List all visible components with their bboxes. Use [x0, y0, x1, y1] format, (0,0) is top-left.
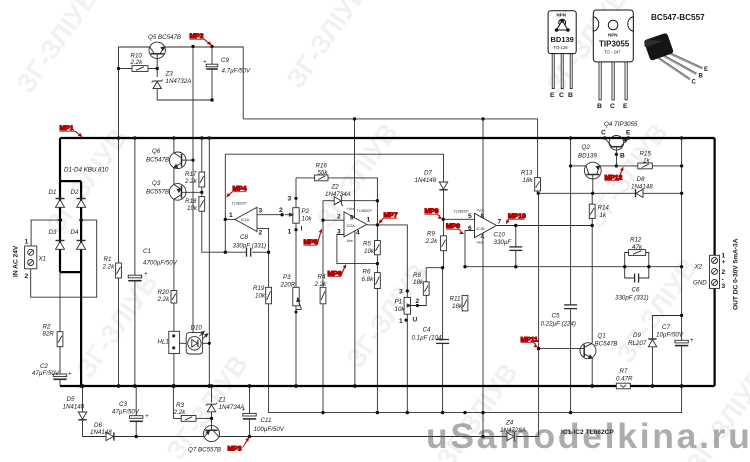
svg-text:6: 6 — [468, 225, 472, 232]
wire C6 left loop — [625, 267, 635, 278]
svg-text:Z2: Z2 — [331, 184, 340, 191]
node MP8 D7 R9 pin5 — [442, 218, 445, 221]
svg-text:1N4734A: 1N4734A — [219, 404, 245, 411]
wire R4 bottom to sense line — [322, 304, 324, 413]
resistor R1 — [116, 263, 122, 278]
node rail R1 column — [117, 136, 121, 140]
node feedback net output column — [680, 265, 683, 268]
capacitor C5 ceramic — [564, 305, 577, 309]
node bus Z1 — [210, 384, 214, 388]
wire R1 column rail to bus — [118, 138, 120, 263]
svg-text:R7: R7 — [620, 368, 628, 375]
svg-text:R13: R13 — [521, 170, 533, 177]
wire C5 column from rail — [570, 138, 572, 305]
wire Q2 collector lead — [571, 165, 586, 167]
node sense line R6 — [376, 411, 379, 414]
test point MP8 — [425, 208, 443, 219]
potentiometer P1 — [404, 297, 410, 314]
svg-text:B: B — [699, 74, 704, 80]
svg-text:B: B — [568, 92, 573, 99]
test point MP5 — [304, 229, 323, 246]
node R5 R6 pin3 junction — [376, 262, 379, 265]
svg-text:IC1B: IC1B — [477, 227, 486, 231]
svg-text:C: C — [610, 103, 615, 110]
svg-text:R8: R8 — [413, 272, 421, 279]
capacitor C4 ceramic — [436, 340, 449, 344]
resistor R11 — [462, 295, 468, 311]
svg-text:TO-126: TO-126 — [554, 45, 569, 50]
wire D9 anode to bus — [652, 347, 654, 386]
node R12 C6 right — [647, 265, 650, 268]
wire R4 column — [322, 220, 324, 287]
svg-text:B: B — [597, 103, 602, 110]
wire C6 right loop — [639, 267, 649, 278]
resistor R16 — [315, 175, 328, 181]
wire C3 bottom — [135, 422, 137, 437]
svg-text:2.2k: 2.2k — [184, 178, 198, 185]
diode D1 bridge — [56, 199, 65, 208]
test point MP7 — [379, 212, 398, 224]
svg-text:E: E — [550, 92, 555, 99]
svg-text:2.2k: 2.2k — [130, 59, 144, 66]
diode D2 bridge — [77, 199, 86, 208]
diode D5 — [78, 412, 86, 420]
svg-text:U: U — [413, 317, 418, 324]
wire R17 column from rail — [201, 138, 203, 172]
node rail C5 Q2 column — [569, 136, 573, 140]
LED holder HL1 — [169, 331, 186, 353]
diode D3 bridge — [56, 241, 65, 250]
capacitor C8 ceramic — [247, 248, 251, 257]
svg-text:D9: D9 — [633, 332, 641, 339]
node aux rail IC1B pin4 — [481, 435, 484, 438]
node P3 wiper tie — [295, 311, 298, 314]
test point MP11 — [521, 337, 539, 348]
svg-text:1N4148: 1N4148 — [415, 177, 437, 184]
svg-text:TL082CP: TL082CP — [454, 210, 470, 214]
svg-text:BD139: BD139 — [578, 153, 597, 160]
svg-text:3: 3 — [399, 289, 403, 296]
wire Q2 emitter to Q4 base node — [600, 165, 638, 167]
wire bridge left column (thick) — [59, 138, 61, 272]
svg-text:8: 8 — [350, 215, 354, 222]
node bus R3 — [172, 384, 176, 388]
wire R10 right to Q5 base node — [148, 68, 157, 70]
svg-text:E: E — [704, 67, 708, 73]
svg-text:GND: GND — [693, 280, 707, 287]
test point MP4 — [226, 186, 246, 198]
svg-text:1N4148: 1N4148 — [90, 429, 112, 436]
capacitor C2 polarized — [53, 374, 66, 379]
wire main positive rail (thick) — [60, 137, 715, 139]
svg-text:D5: D5 — [67, 396, 75, 403]
node aux rail C3 — [135, 435, 138, 438]
wire Q5 base down to R10/Z3 node — [156, 54, 158, 77]
svg-text:1N4148: 1N4148 — [631, 184, 653, 191]
node Q4 base marker — [615, 153, 618, 156]
svg-text:330pF (331): 330pF (331) — [615, 295, 649, 302]
svg-text:0.22µF (224): 0.22µF (224) — [541, 321, 576, 328]
wire Q6 collector riser — [173, 138, 175, 153]
node MP7 output node — [376, 223, 379, 226]
svg-text:R6: R6 — [363, 269, 371, 276]
wire HL1 bottom pin to bus — [173, 354, 175, 386]
svg-text:18k: 18k — [452, 303, 463, 310]
svg-text:R2: R2 — [43, 324, 51, 331]
resistor R10 — [132, 66, 148, 72]
resistor R6 — [375, 273, 381, 289]
wire P3 bottom to bus — [295, 306, 297, 386]
resistor R19 — [266, 287, 272, 304]
wire IC1B pin7 output — [496, 225, 592, 227]
potentiometer P2 — [285, 208, 299, 224]
wire IC1A pin3 to P2 wiper — [257, 214, 282, 216]
node rail Q4 collector — [603, 136, 607, 140]
svg-text:3: 3 — [722, 283, 726, 290]
node aux rail C11 MP3 — [248, 435, 251, 438]
svg-text:+Vcc: +Vcc — [347, 207, 355, 211]
node Q2 collector tap — [569, 164, 572, 167]
node IC1B pin7 C10 — [514, 224, 517, 227]
diode D6 — [106, 432, 114, 440]
svg-text:Q5 BC547B: Q5 BC547B — [148, 34, 181, 41]
svg-text:3: 3 — [259, 208, 263, 215]
transistor package photo BC547-BC557 — [644, 13, 708, 86]
svg-text:R16: R16 — [316, 163, 328, 170]
transistor package drawing TIP3055 — [593, 10, 633, 110]
node Q6 base MP2 column — [191, 159, 194, 162]
svg-text:Z3: Z3 — [165, 71, 174, 78]
svg-text:R9: R9 — [427, 231, 435, 238]
wire C1 bottom to bus — [134, 281, 136, 386]
wire IC1B pin8 supply riser — [482, 119, 484, 217]
node P1 pin3 marker — [406, 289, 409, 292]
svg-text:I: I — [301, 226, 303, 233]
op-amp IC2A — [344, 212, 367, 237]
node sense line C4 — [441, 411, 444, 414]
svg-text:BC547B: BC547B — [595, 341, 618, 348]
svg-text:7: 7 — [498, 219, 502, 226]
svg-text:BC547B: BC547B — [146, 157, 169, 164]
wire IC1A pin1 output stub — [225, 218, 235, 220]
svg-text:C7: C7 — [662, 324, 670, 331]
svg-text:P2: P2 — [302, 208, 310, 215]
node C10 bottom feedback net — [514, 265, 517, 268]
wire IC1A pin2 corner to C8 right — [257, 228, 269, 252]
svg-text:1: 1 — [229, 212, 233, 219]
node Z1 R3 Q7 base — [210, 417, 213, 420]
wire R13 bottom to Q2 base net — [538, 191, 593, 193]
svg-text:C3: C3 — [119, 401, 127, 408]
node bus HL1 — [172, 384, 176, 388]
wire IC1B pin6 corner to feedback net — [465, 231, 475, 267]
wire C10 bottom — [515, 250, 517, 266]
wire feedback net y=266.7 to output plus column — [465, 266, 682, 268]
wire R16 left lead — [296, 177, 315, 179]
svg-text:2.2k: 2.2k — [425, 238, 439, 245]
capacitor C11 polarized — [243, 413, 256, 419]
resistor R4 — [320, 287, 326, 304]
resistor R2 — [57, 332, 63, 347]
svg-text:+: + — [722, 259, 726, 266]
wire R14 bottom to Q1 collector — [591, 218, 593, 343]
wire X1 pin2 AC loop — [31, 220, 97, 297]
svg-text:10µF/50V: 10µF/50V — [656, 332, 684, 339]
svg-text:E: E — [623, 103, 628, 110]
svg-text:D4: D4 — [71, 229, 79, 236]
svg-text:RL207: RL207 — [628, 340, 647, 347]
svg-text:1k: 1k — [600, 212, 607, 219]
svg-text:R3: R3 — [176, 402, 184, 409]
capacitor C9 polarized — [206, 64, 218, 69]
svg-text:C1: C1 — [143, 248, 151, 255]
wire IC2A pin4 down to bus — [354, 232, 356, 387]
wire Z2 left riser down to pin2 and R4 — [322, 201, 324, 221]
resistor R14 — [589, 204, 595, 218]
wire rail-to-bus link at LED column — [208, 138, 210, 386]
node top wire at MP2 column — [191, 45, 194, 48]
zener Z1 — [206, 403, 217, 412]
node R15 right output column — [680, 164, 683, 167]
transistor package drawing BD139 — [548, 11, 576, 99]
wire C8 left plate lead — [225, 251, 246, 253]
svg-text:BC557B: BC557B — [146, 189, 169, 196]
svg-text:2.2k: 2.2k — [173, 409, 187, 416]
svg-text:R15: R15 — [640, 151, 652, 158]
wire C1 column — [134, 138, 136, 275]
svg-text:R11: R11 — [450, 296, 461, 303]
wire R17 to R18 junction with Q3 base — [201, 187, 203, 197]
capacitor C1 polarized — [128, 275, 141, 281]
svg-text:Q7 BC557B: Q7 BC557B — [188, 447, 221, 454]
svg-text:C9: C9 — [221, 57, 229, 64]
wire Z1 anode to Q7 base node — [211, 412, 213, 419]
svg-text:-Vee: -Vee — [476, 241, 483, 245]
wire Q4 base drop — [615, 147, 617, 166]
resistor R8 — [423, 282, 429, 296]
wire D8 anode lead — [643, 192, 681, 194]
svg-text:4.7µF/50V: 4.7µF/50V — [222, 68, 252, 75]
wire bridge minus bar (thick) — [60, 271, 81, 273]
node bus R1 — [117, 384, 121, 388]
wire Q3 collector down to R20 — [173, 199, 175, 290]
node bus IC2A pin4 — [353, 384, 357, 388]
wire Z1 column from bus — [211, 386, 213, 403]
svg-text:1N4148: 1N4148 — [63, 404, 85, 411]
terminal X2 — [710, 255, 720, 288]
wire D7 V+ feed horizontal y=154.2 — [225, 154, 443, 181]
wire IC2A pin8 supply riser — [354, 119, 356, 218]
transistor Q5 — [149, 42, 165, 58]
node R10 left tap — [117, 67, 120, 70]
wire top Q5 collector from raw+ riser — [119, 47, 151, 138]
wire C10 column — [515, 226, 517, 247]
node rail Q6 collector — [172, 136, 176, 140]
svg-text:IN AC 24V: IN AC 24V — [13, 245, 20, 277]
svg-text:Q4 TIP3055: Q4 TIP3055 — [604, 121, 638, 128]
wire C7 branch to D9 — [653, 316, 682, 340]
diode D8 — [636, 189, 644, 197]
svg-text:4: 4 — [481, 234, 485, 241]
wire MP4 vertical IC1A output node — [224, 154, 226, 252]
node D8 right output column — [680, 192, 683, 195]
svg-text:47k: 47k — [632, 244, 643, 251]
test point MP3 — [228, 437, 250, 452]
diode D4 bridge — [77, 241, 86, 250]
svg-text:C10: C10 — [494, 232, 506, 239]
wire R10 left tap — [119, 68, 133, 70]
wire R9 column — [443, 219, 445, 236]
svg-text:R5: R5 — [363, 241, 371, 248]
wire R20 bottom to HL1 top pin — [173, 303, 175, 331]
resistor R18 — [199, 197, 205, 212]
svg-text:100µF/50V: 100µF/50V — [254, 426, 285, 433]
node C8 right IC1A pin2 R19 — [267, 251, 270, 254]
resistor R3 — [181, 416, 196, 422]
svg-text:MP3: MP3 — [228, 446, 242, 453]
zener Z2 — [334, 195, 343, 206]
wire C5 bottom to sense line — [570, 309, 572, 413]
wire D8 cathode lead — [593, 192, 636, 194]
node bus Q1 emitter — [590, 384, 594, 388]
svg-text:R18: R18 — [185, 198, 197, 205]
transistor Q3 — [169, 184, 186, 201]
svg-text:R20: R20 — [158, 289, 170, 296]
node Q3 base R17 R18 — [200, 191, 203, 194]
wire P2 bottom to P3 top — [295, 223, 297, 287]
resistor R7 with V marking — [616, 383, 630, 389]
transistor Q2 — [584, 162, 601, 179]
svg-text:220R: 220R — [280, 282, 296, 289]
wire C8 right plate lead — [252, 251, 268, 253]
svg-text:47µF/50V: 47µF/50V — [112, 409, 140, 416]
wire R2 chain from bridge minus bar — [59, 272, 61, 332]
svg-text:D3: D3 — [49, 229, 57, 236]
node sense line P1 — [406, 411, 409, 414]
node V+ wire IC1B pin8 — [481, 117, 484, 120]
wire X1 pin1 AC loop — [31, 220, 60, 246]
transistor Q1 — [580, 343, 596, 359]
svg-text:3: 3 — [288, 196, 292, 203]
wire Z2 cathode to node — [342, 200, 378, 202]
svg-text:C: C — [692, 80, 697, 86]
wire output plus column — [681, 138, 683, 340]
svg-text:2.2k: 2.2k — [157, 296, 171, 303]
test point MP10 — [506, 213, 526, 224]
svg-text:P3: P3 — [283, 274, 291, 281]
capacitor C6 ceramic — [635, 274, 639, 283]
wire negative aux rail after Z4 corner up MP11 column — [516, 436, 538, 438]
diode D7 — [439, 182, 447, 190]
resistor R20 — [171, 291, 177, 304]
wire IC2A pin3 lead loop — [337, 235, 378, 264]
wire IC2A pin2 lead — [323, 219, 344, 221]
node P1 wiper pin2 marker — [416, 304, 419, 307]
svg-text:R4: R4 — [318, 274, 326, 281]
svg-text:TO - 247: TO - 247 — [604, 50, 621, 55]
node IC2A pin2 Z2 R4 — [321, 219, 324, 222]
svg-text:C8: C8 — [240, 234, 248, 241]
svg-text:+: + — [68, 371, 72, 378]
wire Q6 base stub — [182, 159, 194, 161]
wire D5 anode corner — [82, 420, 84, 436]
svg-text:+: + — [145, 413, 149, 420]
svg-text:IC1A: IC1A — [241, 218, 250, 222]
transistor Q4 — [606, 136, 628, 151]
wire R5 to R6 junction — [376, 255, 378, 273]
svg-text:C6: C6 — [632, 287, 640, 294]
svg-text:C4: C4 — [423, 327, 431, 334]
test point MP9 — [446, 223, 464, 234]
node Q5 base R10 Z3 — [156, 67, 159, 70]
svg-text:10k: 10k — [255, 293, 266, 300]
node P2 pin1 marker — [294, 228, 297, 231]
svg-text:Q2: Q2 — [582, 144, 591, 151]
node rail LED link column — [208, 136, 212, 140]
wire main negative bus (thick) — [60, 385, 715, 387]
node Q2 base D8 R14 — [591, 192, 594, 195]
wire C2 bottom to bus start — [59, 380, 61, 387]
svg-text:4700µF/50V: 4700µF/50V — [143, 260, 178, 267]
svg-text:2: 2 — [722, 269, 726, 276]
wire C11 column from bus — [249, 386, 251, 413]
node rail output column — [680, 136, 684, 140]
resistor R15 — [638, 163, 652, 169]
resistor R13 — [535, 178, 541, 191]
svg-text:2: 2 — [279, 207, 283, 214]
svg-text:2: 2 — [25, 273, 29, 280]
capacitor C7 polarized — [675, 340, 688, 345]
svg-text:D10: D10 — [191, 324, 203, 331]
wire bridge right column (thick) — [80, 181, 82, 272]
svg-text:-Vee: -Vee — [346, 239, 353, 243]
wire R12 C6 right stub — [646, 253, 649, 267]
wire R12 C6 left stub — [625, 253, 629, 267]
svg-text:TL082CP: TL082CP — [357, 209, 373, 213]
svg-text:2.2k: 2.2k — [102, 264, 116, 271]
svg-text:BC547-BC557: BC547-BC557 — [651, 13, 705, 22]
node pin7 R14 Q1 collector — [591, 224, 594, 227]
svg-text:1: 1 — [399, 318, 403, 325]
node V+ wire IC2A pin8 — [353, 117, 356, 120]
svg-text:2.2k: 2.2k — [314, 281, 328, 288]
test point MP1 — [60, 125, 83, 137]
svg-text:0.47R: 0.47R — [616, 376, 633, 383]
wire R1 bottom to bus — [118, 278, 120, 386]
node bus LED link — [207, 384, 211, 388]
node sense line R11 — [463, 411, 466, 414]
potentiometer P3 — [293, 287, 302, 309]
wire R6 bottom to sense line — [376, 289, 378, 413]
test point MP12 — [605, 167, 624, 182]
node bus D5 — [81, 384, 85, 388]
wire bridge minus down to bus (thick) — [80, 272, 82, 386]
node pin6 feedback corner — [463, 265, 466, 268]
svg-text:0.1µF (104): 0.1µF (104) — [412, 335, 444, 342]
svg-text:D1-D4 KBU 810: D1-D4 KBU 810 — [64, 167, 109, 174]
wire D7 cathode to MP8 node — [443, 190, 445, 220]
wire rail right corner down to X2 pin1 (thick) — [713, 138, 715, 259]
svg-text:10k: 10k — [302, 216, 313, 223]
svg-text:X2: X2 — [694, 264, 703, 271]
wire LED D10 right lead — [203, 342, 210, 344]
wire R2 to C2 — [59, 347, 61, 374]
wire Q1 base lead — [539, 348, 580, 350]
node C7 D9 branch — [680, 314, 683, 317]
svg-text:2: 2 — [337, 214, 341, 221]
svg-text:D7: D7 — [424, 170, 432, 177]
svg-text:56k: 56k — [318, 170, 329, 177]
